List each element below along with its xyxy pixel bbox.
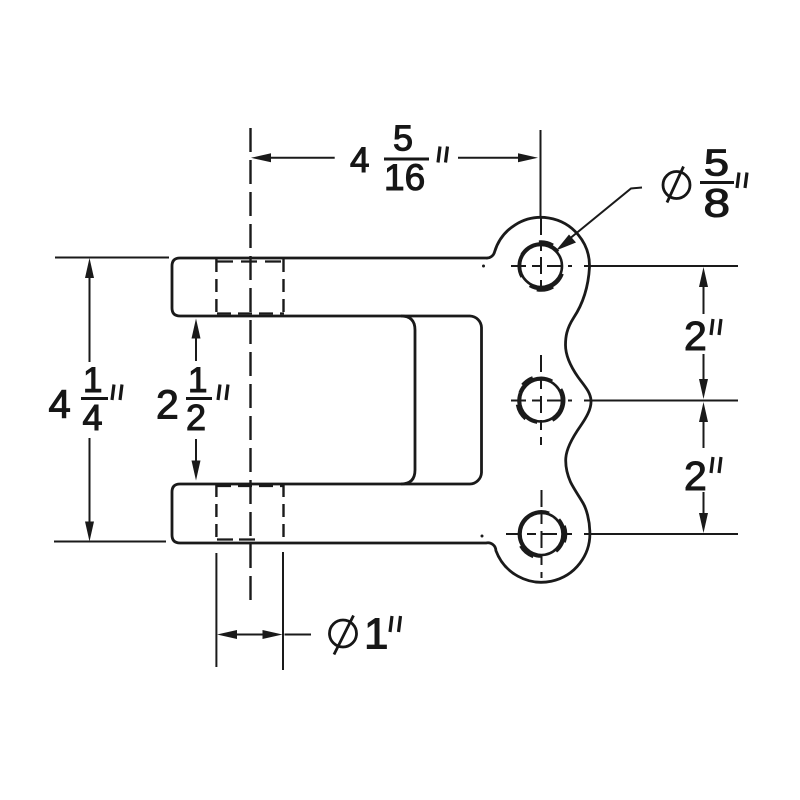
svg-text:16: 16: [384, 157, 425, 198]
dim: bottom 1in extension lines: [216, 552, 283, 670]
dim text 2 1/2": [156, 361, 228, 438]
svg-text:2: 2: [156, 382, 179, 428]
leader line for 5/8 hole: [568, 188, 642, 241]
hole H3 (bottom): [519, 511, 566, 557]
centerline (vertical dashed through 1in hole): [249, 128, 251, 608]
speck artifacts: [482, 265, 485, 268]
right dim arrow down (mid upper): [699, 379, 708, 399]
dim: right extension lines from holes: [584, 266, 738, 534]
dim: left 4-1/4 dimension line: [89, 276, 91, 524]
part outline: [172, 217, 591, 582]
svg-text:2: 2: [684, 313, 707, 359]
dim: 2-1/2 top arrow: [192, 319, 201, 339]
svg-text:4: 4: [49, 383, 71, 427]
svg-text:2: 2: [684, 453, 707, 499]
leader arrow: [556, 235, 576, 251]
svg-text:1: 1: [83, 361, 102, 400]
dim: left bottom arrow: [85, 522, 94, 542]
inner slot rounded line: [401, 316, 415, 484]
svg-text:1: 1: [188, 361, 207, 400]
dim text 5/8": [700, 143, 747, 226]
dim text 4 5/16": [350, 118, 448, 199]
bottom dim left arrow: [217, 630, 237, 639]
dim text 1": [364, 610, 401, 659]
svg-text:4: 4: [350, 141, 369, 180]
dim: top left arrow: [251, 153, 271, 162]
right dim arrow up (top): [699, 267, 708, 287]
diameter symbol (5/8): [663, 167, 690, 203]
svg-text:1: 1: [364, 610, 388, 659]
hole H2 (middle): [517, 377, 564, 422]
diameter symbol (1in): [330, 616, 357, 655]
svg-text:2: 2: [186, 397, 206, 438]
dim text 2" (upper): [684, 313, 721, 359]
bottom dim right arrow: [263, 630, 283, 639]
dim: top 4-5/16 dimension line: [269, 157, 520, 159]
hole H3 centerlines: [506, 490, 572, 578]
svg-text:8: 8: [704, 182, 731, 226]
hole H1 centerlines: [511, 218, 572, 294]
hidden hole line right (dashed x=283.5): [282, 259, 284, 542]
dim text 4 1/4": [49, 361, 123, 438]
dim: 2-1/2 dimension line: [195, 335, 197, 465]
right dim arrow up (mid lower): [699, 402, 708, 422]
dim: top 4-5/16 extension line: [540, 130, 542, 216]
dim: left top arrow: [85, 258, 94, 278]
dim text 2" (lower): [684, 453, 721, 499]
hole H2 centerlines: [511, 355, 572, 445]
dim: right 2in dimension line upper: [703, 285, 705, 515]
svg-text:4: 4: [83, 397, 103, 438]
dim: 2-1/2 bottom arrow: [192, 461, 201, 481]
hole H1 (top): [519, 242, 563, 291]
hidden hole line left (dashed x=216): [215, 259, 217, 542]
dim: bottom 1in dimension line: [235, 634, 311, 636]
right dim arrow down (bottom): [699, 513, 708, 533]
dim: left 4-1/4 extension lines: [54, 258, 169, 542]
hidden tube edge dashes (horizontal): [217, 262, 284, 540]
dim: top right arrow: [518, 153, 538, 162]
svg-text:5: 5: [393, 118, 413, 159]
svg-text:5: 5: [704, 143, 729, 184]
